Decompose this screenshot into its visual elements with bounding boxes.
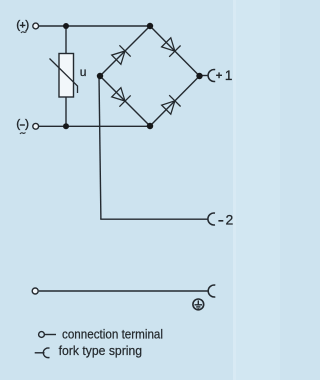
wire varistor top [65,26,67,54]
svg-text:): ) [25,117,29,131]
terminal (+) input [33,23,39,29]
wire bridge edge bottom-right [150,76,200,126]
svg-text:(: ( [16,18,20,32]
terminal (-) input [33,123,39,129]
terminal earth line [32,288,38,294]
wire top rail [39,25,148,27]
diode D2 top-right [162,38,175,51]
wire varistor bottom [65,97,67,126]
legend fork symbol [35,352,45,354]
svg-text:(: ( [16,117,20,131]
ground symbol circle [193,299,204,310]
background right zone [236,0,280,380]
svg-text:): ) [25,18,29,32]
diode D3 bottom-left [112,88,125,101]
svg-text:1: 1 [225,68,233,83]
tilde under (+) [21,32,27,33]
node right of bridge [196,73,202,79]
node left of bridge [97,73,103,79]
wire output plus [200,75,209,77]
svg-text:fork type spring: fork type spring [59,343,143,358]
background divider band [233,0,236,380]
fork type spring output 1 [208,69,215,81]
wire bottom rail [39,125,148,127]
node bottom of bridge [147,123,153,129]
svg-text:u: u [80,65,87,79]
varistor U body [59,54,74,98]
fork type spring earth line [208,285,215,297]
diode D4 bottom-right [162,101,175,114]
wire output minus horizontal [100,218,208,220]
wire bridge edge top-right [150,26,200,76]
label + of output 1 [216,74,222,76]
junction varistor bottom [63,123,69,129]
svg-text:connection terminal: connection terminal [62,326,163,341]
node top of bridge [147,23,153,29]
background left zone [0,0,233,380]
legend terminal symbol [39,332,45,338]
svg-text:2: 2 [226,212,234,228]
wire bridge edge bottom-left [100,76,150,126]
tilde under (-) [20,133,26,134]
label minus of output 2 [218,220,223,222]
junction varistor top [63,23,69,29]
ground symbol PE bars [195,300,203,309]
diode D1 top-left [112,51,125,64]
wire output minus vertical [99,76,101,219]
varistor diagonal stroke [50,59,78,94]
wire bottom earth line [39,290,208,292]
wire bridge edge top-left [100,26,150,76]
fork type spring output 2 [208,213,215,225]
